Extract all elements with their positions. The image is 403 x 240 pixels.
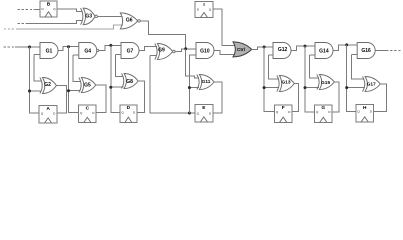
svg-text:G13: G13 [281,80,290,86]
svg-text:G: G [321,105,325,111]
svg-text:G5: G5 [84,83,91,89]
xor gate G15 [317,75,335,90]
wire node to G8 lower input and D.D [111,45,124,112]
junction node on A.D riser [28,90,31,93]
svg-text:Q: Q [41,112,44,116]
wire G7 output to G9 upper input [139,46,157,50]
svg-text:D: D [209,111,212,115]
svg-text:Q: Q [276,110,279,114]
wire G1 output to G4 input [58,47,79,51]
svg-text:G4: G4 [84,48,91,54]
wire G6 output to node at G10 input [140,21,185,49]
svg-text:G11: G11 [202,79,211,85]
flip-flop F [274,105,292,123]
svg-text:D: D [288,110,291,114]
svg-text:D: D [197,7,200,11]
or gate Ctrl [233,42,252,57]
svg-text:D: D [127,105,131,111]
junction node on D.D riser [109,86,112,89]
junction node on E.Q wire [188,112,191,115]
svg-text:A: A [46,106,50,112]
wire node to G15 lower input and G.D [305,46,319,112]
wire G14 output to G16 input [333,45,357,51]
inverter bubble on G3 output [95,15,98,18]
wire B.Q to G3 upper input [57,9,82,11]
and gate G14 [315,43,333,59]
wire Ctrl output to G12 input [252,47,273,49]
svg-text:G9: G9 [158,48,165,54]
flip-flop I [195,2,213,18]
flip-flop D [120,105,137,123]
svg-text:Ctrl: Ctrl [237,47,245,52]
and gate G1 [40,43,58,59]
svg-text:G16: G16 [361,48,371,54]
svg-text:G17: G17 [367,82,376,88]
junction node at G1 input [28,46,31,49]
and gate G7 [121,43,139,59]
svg-text:H: H [363,105,367,111]
wire G14 lower input from G.Q [309,55,319,78]
svg-text:D: D [328,110,331,114]
nor gate G6 [120,13,137,29]
svg-text:G3: G3 [85,14,92,20]
svg-text:G14: G14 [319,48,329,54]
wire G10 output to Ctrl lower input [214,51,236,55]
junction node at G7 input [109,44,112,47]
wire dashed input to flip-flop B [18,8,40,10]
junction node at G14 input [304,45,307,48]
wire G2 output to A.D input [56,86,66,114]
svg-text:D: D [370,110,373,114]
junction node on H.D riser [345,86,348,89]
wire node to G13 lower input and F.D [264,47,279,111]
xor gate G13 [277,76,295,92]
wire G8 output to D.D input [137,81,145,112]
and gate G4 [79,43,97,59]
wire G12 output to G14 input [291,46,315,50]
svg-text:D: D [133,111,136,115]
wire dashed output from G16 [375,50,401,52]
svg-text:F: F [282,105,285,111]
svg-text:E: E [202,105,206,111]
svg-text:G1: G1 [46,48,53,54]
junction node on F.D riser [263,86,266,89]
wire I.Q to Ctrl upper input [213,9,236,45]
inverter bubble on G9 output [173,50,176,53]
inverter bubble on G4 output [97,49,99,51]
svg-text:Q: Q [80,111,83,115]
wire G9 lower input from E.Q [150,55,195,113]
svg-text:I: I [203,2,205,8]
xor gate G3 [81,8,95,25]
flip-flop E [195,105,213,123]
wire G17 output to H.D input [374,84,387,111]
and gate G12 [273,43,291,59]
svg-text:G2: G2 [44,82,51,88]
wire G7 lower input from D.Q [116,55,124,77]
wire node to G5 lower input and C.D [69,47,81,113]
flip-flop H [356,105,374,123]
junction node at G16 input [345,43,348,46]
wire G4 lower input from C.Q [73,55,81,82]
wire G1 lower input from A.Q [34,55,42,82]
svg-text:Q: Q [316,110,319,114]
junction node at G10 input [184,47,187,50]
and gate G10 [196,43,214,59]
svg-text:Q: Q [53,7,56,11]
wire node to G17 lower input and H.D [347,45,365,111]
wire node to G11 upper input [186,49,199,78]
xor gate G17 [363,77,381,92]
svg-text:G10: G10 [200,49,210,55]
flip-flop C [78,105,96,123]
junction node at G4 input [67,45,70,48]
wire G15 output to G.D input [332,82,339,112]
xor gate G2 [40,78,57,94]
xor gate G11 [197,75,214,90]
junction node on G11 lower input [188,86,191,89]
flip-flop A [39,106,57,124]
wire node to G2 lower input and A.D [30,47,42,113]
wire G3 output to G6 upper input [97,15,122,17]
and gate G16 [357,43,375,59]
svg-text:G8: G8 [126,79,133,85]
junction node on C.D riser [67,89,70,92]
xor gate G5 [79,78,96,93]
wire G13 output to F.D input [292,84,298,112]
wire dashed main input [4,46,40,48]
wire dashed input to G3 lower input [18,20,83,23]
wire G9 output to G10 upper input [175,49,196,52]
svg-text:D: D [53,112,56,116]
junction node on G.D riser [304,86,307,89]
wire G10 lower input from E.Q [189,55,196,113]
svg-text:C: C [86,105,90,111]
svg-text:G15: G15 [321,80,330,86]
svg-text:Q: Q [357,110,360,114]
wire G5 output to C.D input [96,85,106,113]
svg-text:G6: G6 [126,18,133,24]
xor gate G8 [122,74,139,89]
svg-text:G7: G7 [127,48,134,54]
svg-text:B: B [47,1,51,7]
wire G16 lower input from H.Q [352,54,365,79]
wire dashed long input to G6 lower input [4,25,123,29]
xor gate G9 [155,44,173,60]
svg-text:Q: Q [197,111,200,115]
flip-flop G [314,105,332,123]
svg-text:Q: Q [209,7,212,11]
svg-text:D: D [42,7,45,11]
junction node at G12 input [263,46,266,49]
wire G11 output to E.D input [213,82,222,113]
svg-text:D: D [92,111,95,115]
flip-flop B [40,1,57,17]
wire G4 output to G7 input [99,45,121,50]
wire E.Q to G11 lower input [189,87,198,89]
svg-text:G12: G12 [278,47,288,53]
wire G12 lower input from F.Q [268,55,278,79]
inverter bubble on G6 output [138,20,141,23]
svg-text:Q: Q [121,111,124,115]
